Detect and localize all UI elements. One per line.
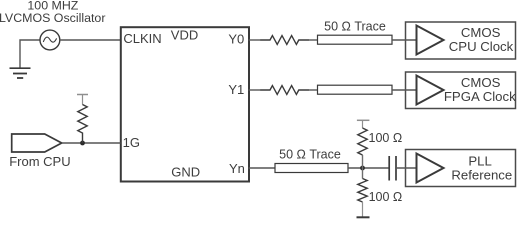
wire: trace box to FPGA buffer xyxy=(392,89,417,91)
svg-text:Y1: Y1 xyxy=(228,82,244,97)
svg-text:GND: GND xyxy=(171,164,200,179)
label PLL Reference xyxy=(451,154,512,183)
svg-text:CMOS: CMOS xyxy=(461,25,501,40)
wire: oscillator to CLKIN xyxy=(60,39,121,41)
wire: trace box to CPU buffer xyxy=(392,39,417,41)
svg-text:FPGA Clock: FPGA Clock xyxy=(444,89,516,104)
wire: Yn pin to trace box xyxy=(249,167,276,169)
svg-text:CPU Clock: CPU Clock xyxy=(449,39,514,54)
ground xyxy=(10,68,31,78)
transmission line: 50 ohm trace Y0 xyxy=(318,35,393,44)
wire: trace box to capacitor xyxy=(348,167,389,169)
box: CMOS CPU Clock xyxy=(406,22,516,59)
capacitor C1 xyxy=(389,156,396,181)
svg-text:CLKIN: CLKIN xyxy=(123,31,161,46)
svg-text:CMOS: CMOS xyxy=(461,75,501,90)
wire: capacitor to PLL buffer xyxy=(396,167,417,169)
label CMOS CPU Clock xyxy=(449,25,514,54)
wire: junction to pull-down resistor xyxy=(362,168,364,179)
ground rail stub (bottom termination) xyxy=(357,202,370,217)
label CMOS FPGA Clock xyxy=(444,75,516,104)
svg-text:From CPU: From CPU xyxy=(9,154,70,169)
svg-text:VDD: VDD xyxy=(171,28,198,43)
IC U1 xyxy=(121,27,249,181)
svg-text:LVCMOS Oscillator: LVCMOS Oscillator xyxy=(0,11,105,25)
buffer U3 (FPGA clock) xyxy=(417,76,444,105)
junction node Yn termination xyxy=(360,166,365,171)
label: 100 MHZ LVCMOS Oscillator xyxy=(0,0,105,25)
buffer U4 (PLL reference) xyxy=(417,154,444,183)
resistor R2 (Y1 series) xyxy=(261,86,310,95)
junction node at 1G xyxy=(80,141,85,146)
transmission line: 50 ohm trace Y1 xyxy=(318,85,393,94)
wire: resistor to trace box Y0 xyxy=(309,39,318,41)
svg-text:Reference: Reference xyxy=(451,168,512,183)
input flag From CPU xyxy=(12,134,62,152)
wire: Y0 pin to resistor xyxy=(249,39,262,41)
resistor R1 (Y0 series) xyxy=(261,36,310,45)
oscillator OSC1 xyxy=(40,30,60,50)
wire: resistor to trace box Y1 xyxy=(309,89,318,91)
svg-text:50 Ω Trace: 50 Ω Trace xyxy=(324,19,386,33)
wire: pull-up resistor to junction xyxy=(362,155,364,168)
wire: Y1 pin to resistor xyxy=(249,89,262,91)
buffer U2 (CPU clock) xyxy=(417,26,444,55)
svg-text:1G: 1G xyxy=(123,135,140,150)
VDD rail stub (top termination) xyxy=(357,120,370,128)
transmission line: 50 ohm trace Yn xyxy=(275,164,348,173)
svg-text:100 Ω: 100 Ω xyxy=(369,190,403,204)
svg-text:100 Ω: 100 Ω xyxy=(369,131,403,145)
wire: flag to 1G pin xyxy=(62,142,121,144)
svg-text:Yn: Yn xyxy=(229,161,245,176)
resistor 100 ohm pull-down xyxy=(358,179,367,202)
box: CMOS FPGA Clock xyxy=(406,72,516,109)
svg-text:Y0: Y0 xyxy=(228,32,244,47)
svg-text:50 Ω Trace: 50 Ω Trace xyxy=(279,148,341,162)
wire: oscillator left lead and drop to ground xyxy=(20,40,40,68)
svg-text:PLL: PLL xyxy=(468,154,491,169)
resistor pull-up at 1G xyxy=(78,105,87,144)
box: PLL Reference xyxy=(406,150,516,187)
resistor 100 ohm pull-up xyxy=(358,128,367,155)
VDD rail stub for pull-up xyxy=(77,95,88,105)
